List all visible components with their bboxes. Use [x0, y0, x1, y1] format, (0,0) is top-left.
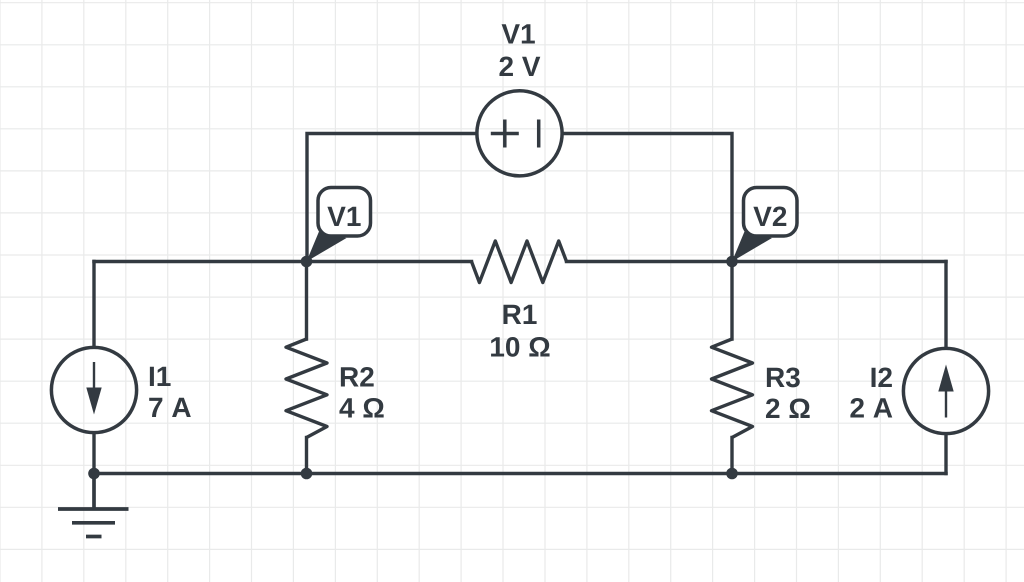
wire main horizontal left segment: [94, 260, 472, 263]
junction node V1: [301, 256, 313, 268]
label R3 designator "R3": [767, 367, 800, 387]
wire I1 to bottom: [92, 434, 95, 474]
label R3 value "2 Ω": [766, 398, 810, 418]
label I1 value "7 A": [149, 398, 191, 417]
wire left branch down to I1: [92, 262, 95, 348]
junction node V2: [726, 256, 738, 268]
label I2 value "2 A": [850, 398, 892, 418]
wire main horizontal right segment: [567, 260, 947, 263]
junction R2 bottom: [301, 468, 313, 480]
wire bottom horizontal: [94, 472, 946, 475]
label V1 designator "V1": [502, 24, 535, 43]
wire R2 top lead: [305, 262, 308, 340]
resistor R1: [472, 241, 567, 283]
node tag V1: [307, 188, 371, 262]
current source I2 arrowhead: [938, 365, 953, 392]
wire R3 top lead: [730, 262, 733, 340]
wire I2 to bottom: [944, 435, 947, 474]
label R2 designator "R2": [341, 367, 374, 387]
label R1 value "10 Ω": [491, 337, 549, 357]
junction R3 bottom: [726, 468, 738, 480]
current source I1 arrowhead: [86, 388, 101, 415]
wire right branch down to I2: [944, 262, 947, 349]
current source I1: [51, 347, 136, 432]
label R2 value "4 Ω": [339, 398, 383, 418]
label V1 value "2 V": [499, 56, 540, 76]
label I1 designator "I1": [150, 367, 171, 386]
wire R3 bottom lead: [730, 438, 733, 474]
node tag V2: [732, 188, 797, 262]
label R1 designator "R1": [503, 305, 536, 324]
voltage source V1: [477, 91, 562, 176]
ground: [58, 474, 129, 537]
junction ground node at I1: [88, 468, 100, 480]
wire top-right from V1 source to node V2: [564, 134, 733, 262]
resistor R3: [712, 339, 753, 438]
wire R2 bottom lead: [305, 438, 308, 474]
resistor R2: [286, 339, 327, 438]
current source I2: [903, 348, 988, 433]
label I2 designator "I2": [872, 367, 892, 387]
wire top-left from node V1 up and right to V1 source: [307, 134, 476, 262]
